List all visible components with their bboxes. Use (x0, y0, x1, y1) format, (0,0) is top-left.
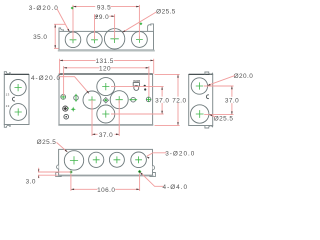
top view hole 4 (Ø20.0) (132, 32, 148, 48)
ext from bottom hole (111, 113, 164, 115)
ext right bottom (204, 114, 233, 116)
small C slot right view (206, 95, 209, 99)
leader 4-Ø4.0 (141, 173, 164, 187)
top view hole 3 (Ø25.5) (104, 29, 124, 49)
svg-text:120: 120 (99, 66, 111, 73)
left view top dark edge (4, 73, 29, 75)
corner small hole right (146, 97, 151, 102)
svg-text:Ø25.5: Ø25.5 (37, 139, 57, 146)
central hole top (Ø20) (97, 78, 115, 96)
svg-text:3.0: 3.0 (26, 178, 36, 185)
extension line hole4 center (138, 5, 140, 40)
left view top-left tab (4, 72, 10, 75)
leader 3-Ø20.0 (57, 9, 69, 32)
ext from right hole down (118, 100, 120, 136)
right view bottom-right tab (205, 125, 213, 128)
ext 106 right (139, 173, 141, 191)
left view hole bottom (10, 104, 27, 121)
connector dots (144, 85, 146, 87)
leader 3-Ø20.0 bottom view (147, 153, 166, 156)
right side view plate outline (189, 75, 213, 126)
right view top dark edge (189, 73, 213, 75)
ext from top hole (111, 86, 164, 88)
grip point (71, 7, 74, 10)
extension line hole3 (114, 14, 116, 39)
svg-text:37.0: 37.0 (155, 97, 169, 104)
connector outline (133, 83, 139, 87)
svg-text:106.0: 106.0 (97, 187, 115, 194)
svg-text:3-Ø20.0: 3-Ø20.0 (165, 150, 195, 157)
leader Ø25.5 right (210, 115, 216, 117)
svg-text:13: 13 (6, 93, 10, 97)
central view top dark edge (59, 73, 153, 75)
svg-text:37.0: 37.0 (99, 132, 113, 139)
ext 131.5 right (153, 59, 155, 74)
bottom view hole 3 (109, 152, 124, 167)
small hole Ø4 left (69, 170, 73, 174)
left view bottom-left tab (4, 124, 10, 127)
central view plate outline (59, 74, 153, 125)
right view hole bottom (Ø25.5) (191, 105, 209, 123)
ext 131.5 left (59, 59, 61, 74)
small C slot left view (12, 97, 15, 101)
svg-text:13: 13 (6, 104, 10, 108)
svg-text:3-Ø20.0: 3-Ø20.0 (29, 5, 59, 12)
central hole left (Ø20) (83, 91, 101, 109)
leader Ø25.5 top (123, 12, 157, 32)
bottom view hole 2 (89, 152, 104, 167)
top view bottom thick edge (58, 50, 155, 52)
ext from left hole down (91, 100, 93, 136)
top view left corner tab (59, 28, 64, 32)
top view hole 1 (Ø20.0) (65, 32, 81, 48)
extension line hole2 (94, 14, 96, 40)
bottom view hole 4 (131, 152, 147, 168)
svg-text:37.0: 37.0 (225, 98, 239, 105)
small hole Ø4 right (138, 170, 142, 174)
left view hole top (10, 80, 26, 96)
central hole bottom (Ø20) (97, 105, 115, 123)
bottom view left edge notch (56, 165, 58, 169)
corner arrow mark (59, 73, 62, 75)
svg-text:131.5: 131.5 (95, 58, 113, 65)
ext 120 left down to corner hole (63, 66, 65, 96)
ext 120 right down to corner hole (148, 66, 150, 96)
bottom view hole 1 (Ø25.5) (64, 151, 83, 170)
top view plate outline (59, 31, 154, 50)
center small hole with diamond grip (103, 98, 108, 103)
central view bottom edge thick (58, 124, 153, 126)
svg-text:4-Ø20.0: 4-Ø20.0 (31, 75, 61, 82)
svg-text:Ø25.5: Ø25.5 (214, 115, 234, 122)
small hole w/ vertical centerline grip (74, 96, 79, 101)
corner small hole left (61, 95, 66, 100)
dimension 93.5 (73, 6, 95, 8)
central hole right (Ø20) (110, 91, 128, 109)
right view hole top (Ø20.0) (191, 78, 207, 94)
top view right corner tab (148, 24, 154, 32)
leader Ø20.0 right (208, 76, 235, 86)
ext 106 left (70, 174, 72, 191)
bottom view bottom thick edge (58, 175, 154, 177)
bottom view right edge notch (153, 166, 155, 170)
svg-text:Ø25.5: Ø25.5 (156, 8, 176, 15)
dimension 29.0 (94, 15, 97, 17)
small hole with center dot (64, 114, 69, 119)
ext 3.0 top (38, 171, 71, 173)
extension line hole1 center (72, 5, 74, 40)
leader Ø25.5 bottom view (57, 142, 68, 151)
svg-text:72.0: 72.0 (172, 97, 186, 104)
ext right top (204, 85, 234, 87)
dimension 35.0 (54, 24, 56, 48)
svg-text:29.0: 29.0 (95, 14, 109, 21)
ext 3.0 bottom (38, 174, 58, 176)
ext 72 top (155, 73, 180, 75)
svg-text:93.5: 93.5 (97, 4, 111, 11)
grip on leader (139, 22, 142, 25)
bottom view left ear (56, 173, 62, 177)
green 4-point star grip (71, 107, 76, 112)
bottom view right ear (150, 173, 156, 177)
right view top-right tab (205, 72, 213, 75)
dark hatched small hole (63, 106, 68, 111)
small hole w/ horizontal centerline grip (131, 97, 136, 102)
ext 72 bottom (155, 124, 180, 126)
svg-text:4-Ø4.0: 4-Ø4.0 (163, 184, 189, 191)
bottom view plate outline (59, 149, 153, 175)
svg-text:35.0: 35.0 (33, 34, 47, 41)
top view hole 2 (Ø20.0) (87, 32, 102, 47)
svg-text:Ø20.0: Ø20.0 (234, 73, 254, 80)
left side view plate outline (4, 75, 29, 125)
